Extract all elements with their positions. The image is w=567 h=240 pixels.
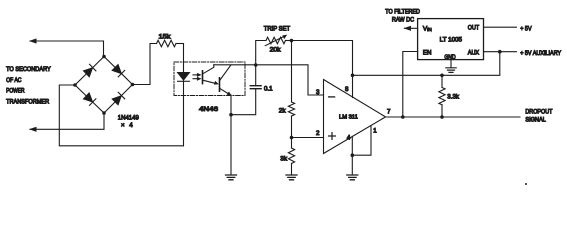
light arrows — [193, 73, 202, 81]
node raw dc arrowhead — [404, 26, 412, 31]
diode D2 (1N4149 top-right) — [112, 64, 125, 77]
svg-text:3: 3 — [316, 89, 320, 96]
transistor Q1 (photo-darlington first) — [203, 65, 219, 85]
svg-text:TRIP SET: TRIP SET — [264, 26, 290, 33]
wire emitter down to ground — [230, 95, 232, 175]
wire VIN input with arrow — [405, 27, 418, 29]
resistor R5 3.3k — [439, 75, 445, 117]
node bridge right — [131, 83, 135, 87]
wire LED anode/cathode vertical — [183, 44, 185, 146]
node emitter / cap return — [229, 113, 233, 117]
LED of optocoupler — [177, 72, 190, 81]
svg-text:POWER: POWER — [6, 88, 25, 95]
wire output pin7 dropout signal line — [386, 116, 521, 118]
svg-text:AUX: AUX — [468, 50, 479, 57]
node divider tap pin 2 — [290, 136, 294, 140]
svg-text:+ 5V: + 5V — [520, 26, 532, 33]
svg-text:1N4149: 1N4149 — [118, 115, 140, 122]
svg-text:OUT: OUT — [468, 25, 479, 32]
resistor R4 3k — [288, 138, 294, 175]
svg-text:7: 7 — [387, 109, 391, 116]
svg-text:2: 2 — [316, 130, 320, 137]
transistor Q2 (photo-darlington second) — [220, 65, 232, 96]
svg-text:15k: 15k — [159, 34, 172, 41]
svg-text:GND: GND — [444, 55, 456, 61]
wire AUX to +5V auxiliary — [484, 51, 517, 53]
node dropout line / 3.3k — [440, 115, 444, 119]
diode D4 (1N4149 bottom-right) — [112, 92, 125, 105]
svg-text:TO SECONDARY: TO SECONDARY — [6, 66, 51, 73]
svg-text:LT 1005: LT 1005 — [440, 37, 463, 44]
wire bridge right node up to 15k — [133, 44, 157, 85]
node scan speck — [525, 183, 527, 185]
svg-text:3k: 3k — [280, 155, 288, 162]
node dropout line / EN — [401, 115, 405, 119]
svg-text:4: 4 — [347, 135, 351, 142]
wire bridge diamond edges — [75, 57, 133, 114]
regulator U2 LT1005 box — [418, 19, 484, 60]
wire EN to dropout line — [403, 52, 418, 118]
svg-text:4N46: 4N46 — [199, 106, 219, 113]
ground (3k) — [286, 175, 297, 180]
node bridge bottom — [102, 111, 106, 115]
diode D3 (1N4149 bottom-left) — [83, 93, 96, 106]
svg-text:0.1: 0.1 — [264, 85, 273, 92]
svg-text:SIGNAL: SIGNAL — [525, 116, 546, 123]
wire pin4 to ground — [351, 137, 353, 175]
svg-text:×: × — [121, 122, 125, 129]
label minus input — [329, 96, 335, 98]
svg-text:1: 1 — [373, 127, 377, 134]
svg-text:DROPOUT: DROPOUT — [525, 109, 552, 116]
wire OUT to +5V — [484, 26, 517, 28]
wire bridge left node loop to LED cathode rail — [59, 85, 183, 146]
node +5V aux rail / pin 8 — [351, 74, 355, 78]
node bridge top — [102, 55, 106, 59]
op-amp U1 LM311 comparator triangle — [324, 80, 386, 154]
node AC bottom arrowhead — [29, 127, 37, 132]
node pot wiper output — [290, 39, 294, 43]
svg-text:8: 8 — [345, 86, 349, 93]
wire AC input top with arrow to bridge top node — [30, 41, 104, 55]
svg-text:TRANSFORMER: TRANSFORMER — [6, 98, 50, 105]
resistor R3 2k — [288, 41, 294, 138]
op-to package 4N46 dashed box — [174, 62, 245, 96]
wire +5V aux rail — [353, 52, 500, 76]
svg-text:VIN: VIN — [423, 25, 432, 32]
wire collector rail to pin3 of comparator — [214, 65, 324, 95]
node collector rail / cap / pot junction — [254, 63, 258, 67]
ground (pin 4) — [347, 175, 358, 180]
wire pin1 feedback to pin4 — [352, 126, 371, 155]
ground (LT1005 GND) — [446, 68, 456, 73]
wire bridge bottom node to AC return arrow — [30, 113, 104, 129]
wire pin 8 drop — [352, 75, 354, 97]
label plus input — [329, 133, 336, 140]
wire pin 2 — [292, 137, 324, 139]
potentiometer R2 TRIP SET 20k — [256, 35, 292, 64]
wire GND pin — [450, 60, 452, 68]
svg-text:TO FILTERED: TO FILTERED — [385, 8, 420, 15]
node aux rail / 3.3k top — [440, 74, 444, 78]
resistor R1 15k — [157, 40, 184, 47]
node AC top arrowhead — [29, 38, 37, 43]
node pin 4 / pin 1 junction — [351, 153, 355, 157]
diode D1 (1N4149 top-left) — [83, 64, 96, 77]
node AUX output — [498, 50, 502, 54]
svg-text:20k: 20k — [270, 46, 282, 53]
svg-text:LM 311: LM 311 — [339, 114, 358, 120]
svg-text:+ 5V AUXILIARY: + 5V AUXILIARY — [520, 50, 561, 57]
svg-text:OF AC: OF AC — [6, 77, 22, 84]
wire pot to supply rail and pin 8 — [292, 41, 353, 76]
capacitor C1 0.1 — [232, 65, 262, 115]
svg-text:2k: 2k — [279, 108, 287, 115]
svg-text:RAW DC: RAW DC — [392, 16, 415, 23]
svg-text:4: 4 — [129, 122, 133, 129]
node bridge left — [73, 83, 77, 87]
svg-text:EN: EN — [423, 50, 432, 57]
ground (opto emitter) — [226, 175, 237, 180]
svg-text:3.3k: 3.3k — [447, 94, 460, 101]
